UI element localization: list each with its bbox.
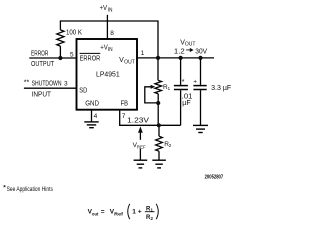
svg-text:GND: GND	[85, 100, 99, 107]
svg-text:FB: FB	[121, 100, 129, 107]
svg-text:3.3 µF: 3.3 µF	[211, 85, 231, 92]
svg-text:30V: 30V	[195, 48, 207, 55]
svg-text:2: 2	[151, 216, 154, 221]
svg-text:1.2: 1.2	[174, 48, 185, 55]
svg-text:*: *	[182, 79, 185, 86]
svg-text:ERROR: ERROR	[31, 50, 48, 57]
svg-text:1.23V: 1.23V	[127, 117, 149, 124]
svg-text:100 K: 100 K	[66, 30, 82, 37]
svg-text:+V: +V	[100, 5, 108, 12]
svg-text:7: 7	[122, 113, 126, 120]
svg-text:INPUT: INPUT	[32, 92, 52, 99]
svg-text:3: 3	[64, 80, 68, 87]
svg-text:OUTPUT: OUTPUT	[31, 61, 55, 68]
svg-text:4: 4	[94, 113, 98, 120]
svg-text:Ref: Ref	[114, 211, 123, 216]
svg-text:=: =	[101, 208, 105, 215]
svg-text:REF: REF	[137, 144, 146, 150]
svg-text:IN: IN	[108, 7, 113, 13]
svg-text:IN: IN	[108, 47, 113, 53]
svg-text:OUT: OUT	[124, 59, 135, 65]
svg-text:+: +	[193, 78, 197, 85]
svg-text:20052807: 20052807	[205, 174, 224, 180]
svg-text:See Application Hints: See Application Hints	[7, 186, 53, 193]
svg-text:LP4951: LP4951	[96, 72, 120, 79]
svg-text:1: 1	[132, 208, 136, 215]
svg-text:**: **	[24, 79, 30, 86]
svg-text:OUT: OUT	[185, 42, 196, 48]
svg-text:1: 1	[141, 50, 145, 57]
svg-text:ERROR: ERROR	[80, 55, 101, 62]
svg-text:8: 8	[110, 30, 114, 37]
svg-text:1: 1	[168, 86, 171, 92]
svg-text:2: 2	[169, 143, 172, 149]
svg-text:SHUTDOWN: SHUTDOWN	[32, 80, 62, 87]
svg-text:5: 5	[70, 52, 74, 59]
svg-text:µF: µF	[182, 100, 190, 107]
svg-text:out: out	[92, 211, 99, 216]
svg-text:SD: SD	[79, 88, 87, 95]
svg-text:+: +	[138, 208, 142, 215]
